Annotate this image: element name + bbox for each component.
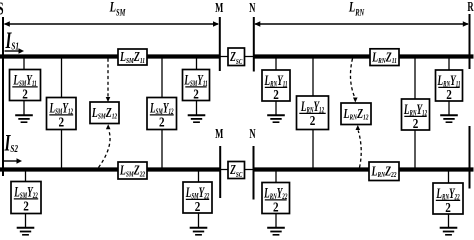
shunt admittance L_RN Y12/2 box C <box>297 96 329 130</box>
mutual impedance L_SM Z12 box A <box>90 102 119 124</box>
dimension arrow L_RN span <box>254 21 468 27</box>
wire conductor-1 segment S-M (phase 1, left) <box>0 54 220 58</box>
wire drop to Y11/2 box B <box>196 57 198 70</box>
svg-text:2: 2 <box>193 86 199 101</box>
node R bar row 2 <box>469 126 471 189</box>
series impedance Zsc box row 1 <box>228 48 245 66</box>
svg-text:N: N <box>249 0 256 16</box>
label node S <box>0 0 4 19</box>
svg-text:2: 2 <box>273 199 279 214</box>
node N bar row 1 <box>253 17 255 72</box>
wire conductor1-to-conductor2 through Y12/2 box D (upper) <box>414 57 416 100</box>
shunt admittance L_SM Y12/2 box A <box>47 98 77 130</box>
wire drop to Y22/2 box D <box>448 170 450 184</box>
ground below Y22/2 box A <box>17 214 35 235</box>
wire stub M-to-N through Zsc row 1 <box>220 56 254 58</box>
ground below Y11/2 box D <box>440 101 458 122</box>
ground below Y11/2 box B <box>188 101 206 123</box>
current I_S1 arrow <box>5 48 25 54</box>
node S bus bar <box>2 17 4 176</box>
wire drop to Y11/2 box C <box>275 57 277 71</box>
series impedance L_RN Z22 box <box>369 162 399 181</box>
mutual impedance L_RN Z12 box B <box>341 103 371 125</box>
shunt admittance L_SM Y22/2 box A <box>11 182 41 214</box>
wire drop to Y22/2 box B <box>198 170 200 183</box>
dimension arrow L_SM span <box>4 21 219 27</box>
svg-text:M: M <box>215 126 223 142</box>
svg-text:2: 2 <box>23 198 29 213</box>
wire conductor-1 segment N-R (phase 1, right) <box>254 54 474 58</box>
series impedance L_SM Z22 box <box>118 162 147 179</box>
svg-text:N: N <box>249 126 256 142</box>
svg-text:S: S <box>0 0 4 19</box>
ground below Y22/2 box C <box>267 214 285 235</box>
ground below Y11/2 box C <box>267 101 285 122</box>
svg-text:2: 2 <box>310 113 316 128</box>
node M bar row 2 <box>219 146 221 198</box>
label node M row 2 <box>215 126 223 142</box>
svg-text:2: 2 <box>159 114 165 129</box>
shunt admittance L_SM Y22/2 box B <box>183 182 212 214</box>
wire conductor1-to-conductor2 through Y12/2 box B (upper) <box>161 57 163 98</box>
ground below Y22/2 box B <box>190 213 208 235</box>
series impedance L_SM Z11 box <box>118 48 147 65</box>
svg-text:2: 2 <box>445 200 451 215</box>
node R bar row 1 <box>469 14 471 69</box>
node M bar row 1 <box>219 17 221 71</box>
wire conductor1-to-conductor2 through Y12/2 box A (upper) <box>61 57 63 98</box>
mutual coupling dashed arrow conductor2 to Z12 box A <box>99 124 111 167</box>
svg-text:2: 2 <box>195 199 201 214</box>
mutual coupling dashed arrow conductor2 to Z12 box B <box>356 125 362 168</box>
shunt admittance L_RN Y11/2 box C <box>262 70 290 102</box>
wire drop to Y11/2 box A <box>23 57 25 70</box>
series impedance Zsc box row 2 <box>228 162 245 180</box>
svg-text:M: M <box>215 0 223 16</box>
mutual coupling dashed arrow conductor1 to Z12 box A <box>106 59 111 103</box>
svg-text:2: 2 <box>413 116 419 131</box>
label node M row 1 <box>215 0 223 16</box>
shunt admittance L_SM Y11/2 box A <box>10 70 41 102</box>
svg-text:2: 2 <box>273 87 279 102</box>
wire conductor1-to-conductor2 through Y12/2 box D (lower) <box>414 130 416 170</box>
shunt admittance L_RN Y11/2 box D <box>436 70 463 102</box>
current I_S1 label <box>5 29 19 54</box>
svg-text:2: 2 <box>22 86 28 101</box>
wire conductor1-to-conductor2 through Y12/2 box C (lower) <box>312 130 314 170</box>
label L_SM length <box>109 0 126 18</box>
wire drop to Y22/2 box C <box>275 170 277 183</box>
ground below Y22/2 box D <box>440 214 458 235</box>
current I_S2 arrow <box>4 158 23 164</box>
current I_S2 label <box>4 132 19 157</box>
node N bar row 2 <box>253 146 255 200</box>
mutual coupling dashed arrow conductor1 to Z12 box B <box>350 59 357 103</box>
series impedance L_RN Z11 box <box>370 49 399 66</box>
wire drop to Y11/2 box D <box>448 57 450 71</box>
wire conductor1-to-conductor2 through Y12/2 box A (lower) <box>61 130 63 170</box>
svg-text:R: R <box>467 0 474 15</box>
label node N row 2 <box>249 126 256 142</box>
ground below Y11/2 box A <box>15 101 33 123</box>
wire drop to Y22/2 box A <box>25 170 27 182</box>
shunt admittance L_RN Y22/2 box D <box>433 183 463 215</box>
svg-text:2: 2 <box>446 87 452 102</box>
wire conductor1-to-conductor2 through Y12/2 box B (lower) <box>161 130 163 170</box>
wire conductor1-to-conductor2 through Y12/2 box C (upper) <box>312 57 314 97</box>
shunt admittance L_RN Y12/2 box D <box>402 99 430 131</box>
label L_RN length <box>348 0 364 18</box>
shunt admittance L_RN Y22/2 box C <box>262 183 290 215</box>
shunt admittance L_SM Y11/2 box B <box>183 70 210 102</box>
label node N row 1 <box>249 0 256 16</box>
wire conductor-2 segment N-R (phase 2, right) <box>254 167 474 171</box>
svg-text:2: 2 <box>58 114 64 129</box>
label node R <box>467 0 474 15</box>
wire stub M-to-N through Zsc row 2 <box>220 169 254 171</box>
wire conductor-2 segment S-M (phase 2, left) <box>0 167 220 171</box>
shunt admittance L_SM Y12/2 box B <box>147 98 177 130</box>
